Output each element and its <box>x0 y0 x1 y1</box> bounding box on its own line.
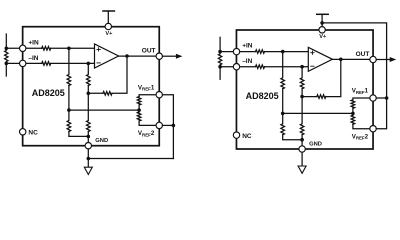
shunt resistor RSHUNT' <box>218 52 221 67</box>
resistor R1 (+IN input resistor) <box>42 47 51 51</box>
op-amp minus sign <box>311 65 314 67</box>
op-amp A1 <box>95 44 119 68</box>
wire shunt to +IN pin <box>6 47 41 49</box>
svg-text:+IN: +IN <box>28 39 39 46</box>
svg-text:V+: V+ <box>319 34 327 40</box>
pin OUT terminal circle <box>156 53 162 59</box>
pin NC' terminal circle <box>233 132 239 138</box>
resistor R4 (+IN divider lower) <box>67 110 71 131</box>
resistor R6' (feedback divider lower) <box>300 97 304 135</box>
svg-text:+IN: +IN <box>242 43 253 50</box>
resistor R2' (-IN input resistor) <box>256 65 265 69</box>
wire R9 to VREF2 pin <box>353 124 373 128</box>
svg-text:OUT: OUT <box>356 51 370 58</box>
wire VREF2 to external tie <box>162 124 173 126</box>
svg-text:AD8205: AD8205 <box>32 88 65 98</box>
pin +IN' terminal circle <box>233 48 239 54</box>
svg-text:OUT: OUT <box>142 48 156 55</box>
wire R5 to feedback node <box>301 89 303 97</box>
node +IN divider mid junction <box>67 108 71 112</box>
shunt resistor RSHUNT supply-side stub wire <box>5 34 7 48</box>
node VREF divider mid junction <box>137 108 141 112</box>
resistor R8 (VREF divider upper) <box>137 97 141 106</box>
resistor R8' (VREF divider upper) <box>351 100 355 109</box>
op-amp plus sign <box>311 51 314 54</box>
node shunt-top junction <box>5 47 9 51</box>
wire R4 bottom to ground bus <box>283 135 302 140</box>
wire R8 to mid node <box>352 108 354 115</box>
wire shunt to +IN pin <box>220 51 255 53</box>
resistor R4' (+IN divider lower) <box>281 113 285 134</box>
resistor R2 (-IN input resistor) <box>42 62 51 66</box>
op-amp A1' <box>308 47 332 71</box>
node V+ stem junction <box>320 21 324 25</box>
resistor R9' (VREF divider lower) <box>351 115 355 124</box>
shunt resistor RSHUNT' supply-side stub wire <box>219 37 221 51</box>
pin VREF1 terminal circle <box>156 92 162 98</box>
wire VREF1 pin to R8 <box>139 95 159 97</box>
wire GND pin to ground symbol (right) <box>301 152 303 166</box>
node shunt-bottom junction <box>5 62 9 66</box>
wire shunt to -IN pin <box>6 62 41 64</box>
wire R5 to feedback node <box>87 86 89 94</box>
svg-text:GND: GND <box>309 142 322 148</box>
pin V+' terminal circle <box>319 27 325 33</box>
op-amp plus sign <box>97 48 100 51</box>
wire feedback node to R7 <box>88 92 103 94</box>
OUT wire with arrow <box>162 55 176 57</box>
node +IN attenuator tap junction <box>67 47 71 51</box>
OUT arrowhead (right) <box>390 57 397 62</box>
svg-text:AD8205: AD8205 <box>246 91 279 101</box>
node -IN attenuator tap junction <box>87 62 91 66</box>
pin OUT' terminal circle <box>370 56 376 62</box>
resistor R5' (feedback divider upper) <box>300 67 304 89</box>
wire R8 to mid node <box>138 105 140 112</box>
pin GND terminal circle <box>85 143 91 149</box>
wire R7 to output node <box>112 56 127 93</box>
wire V+ to VREF tie rail <box>322 23 387 129</box>
node VREF1 tie junction <box>385 96 389 100</box>
wire VREF1 pin to R8 <box>353 98 373 100</box>
pin VREF2 terminal circle <box>156 122 162 128</box>
V+ supply stem wire (right) <box>321 14 323 26</box>
node shunt-top junction <box>218 50 222 54</box>
V+ supply rail bar (right) <box>317 13 328 15</box>
wire R3 to tap node <box>68 86 70 111</box>
shunt resistor RSHUNT load-side stub wire <box>5 63 7 76</box>
wire R1 to op-amp noninverting input <box>265 51 309 53</box>
svg-text:NC: NC <box>242 133 252 140</box>
svg-text:V+: V+ <box>105 31 113 37</box>
node +IN attenuator tap junction <box>281 50 285 54</box>
OUT arrowhead <box>176 54 183 59</box>
node ground stem junction <box>87 157 91 161</box>
pin VREF1' terminal circle <box>370 95 376 101</box>
resistor R3 (+IN divider upper) <box>67 48 71 85</box>
node output junction <box>339 58 343 62</box>
node ground bus junction <box>300 138 304 142</box>
resistor R7' (feedback resistor) <box>317 95 326 99</box>
node feedback junction <box>87 92 91 96</box>
svg-text:–IN: –IN <box>242 58 252 65</box>
wire op-amp output to OUT pin <box>119 55 160 57</box>
svg-text:GND: GND <box>95 138 108 144</box>
node VREF divider mid junction <box>351 112 355 116</box>
resistor R5 (feedback divider upper) <box>87 63 91 85</box>
node feedback junction <box>300 95 304 99</box>
node output junction <box>125 54 129 58</box>
wire R9 to VREF2 pin <box>139 121 159 125</box>
svg-text:NC: NC <box>28 130 38 137</box>
pin GND' terminal circle <box>299 146 305 152</box>
node ground bus junction <box>87 135 91 139</box>
wire VREF1 to tie rail <box>376 97 386 99</box>
wire feedback node to R7 <box>302 96 317 98</box>
pin VREF2' terminal circle <box>370 126 376 132</box>
resistor R9 (VREF divider lower) <box>137 112 141 121</box>
node shunt-bottom junction <box>218 65 222 69</box>
wire GND pin to ground symbol <box>87 149 89 167</box>
V+ supply stem wire <box>107 11 109 23</box>
resistor R6 (feedback divider lower) <box>87 93 91 131</box>
wire R6 bottom to GND pin <box>301 135 303 149</box>
wire op-amp output to OUT pin <box>332 58 373 60</box>
wire R2 to op-amp inverting input <box>51 62 95 64</box>
wire R2 to op-amp inverting input <box>265 66 309 68</box>
resistor R3' (+IN divider upper) <box>281 52 285 89</box>
resistor R7 (feedback resistor) <box>103 92 112 96</box>
shunt resistor RSHUNT <box>5 48 8 63</box>
wire R7 to output node <box>326 59 341 96</box>
node +IN divider mid junction <box>281 112 285 116</box>
AD8205 device boundary box <box>236 30 373 149</box>
AD8205 device boundary box <box>23 27 160 146</box>
V+ supply rail bar <box>103 10 114 12</box>
wire VREF tie to ground stem <box>88 158 173 160</box>
pin NC terminal circle <box>20 129 26 135</box>
node -IN attenuator tap junction <box>300 65 304 69</box>
pin V+ terminal circle <box>105 23 111 29</box>
op-amp minus sign <box>97 62 100 64</box>
pin +IN terminal circle <box>20 45 26 51</box>
ground symbol <box>84 167 92 174</box>
wire R4 bottom to ground bus <box>69 132 88 137</box>
resistor R1' (+IN input resistor) <box>256 50 265 54</box>
wire VREF1 to external tie <box>162 95 173 159</box>
wire +IN divider mid to VREF divider mid <box>283 112 353 114</box>
wire shunt to -IN pin <box>220 66 255 68</box>
svg-text:–IN: –IN <box>28 55 38 62</box>
wire R6 bottom to GND pin <box>87 132 89 146</box>
ground symbol (right) <box>298 166 306 173</box>
OUT wire with arrow (right) <box>376 59 390 61</box>
shunt resistor RSHUNT' load-side stub wire <box>219 67 221 80</box>
wire R1 to op-amp noninverting input <box>51 47 95 49</box>
wire R3 to tap node <box>282 89 284 114</box>
node VREF tie junction <box>172 124 176 128</box>
wire +IN divider mid to VREF divider mid <box>69 109 139 111</box>
pin -IN terminal circle <box>20 60 26 66</box>
pin -IN' terminal circle <box>233 64 239 70</box>
